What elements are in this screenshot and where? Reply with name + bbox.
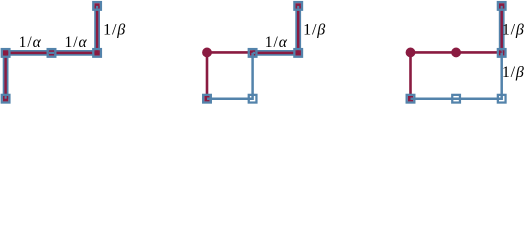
node TP2 inner maroon mark xyxy=(295,3,301,8)
maroon core segment TR-TP (gapped) xyxy=(500,9,502,51)
maroon line disc1-BL xyxy=(409,52,412,98)
node TR2 frame xyxy=(249,49,257,57)
node B1 frame xyxy=(2,49,10,57)
svg-text:1/β: 1/β xyxy=(502,21,525,38)
node BL3 white fill xyxy=(406,94,416,104)
node C1 inner maroon mark xyxy=(49,50,55,56)
node BM3 frame xyxy=(452,95,460,103)
node TP2 frame xyxy=(294,2,302,10)
node TP3 white fill xyxy=(497,1,507,11)
maroon line disc1-disc2-TR xyxy=(411,51,502,54)
wire thin blue BL-BR-TR xyxy=(207,53,253,99)
node E1 frame xyxy=(93,2,101,10)
node B1 white fill xyxy=(1,48,11,58)
svg-text:1/α: 1/α xyxy=(64,34,87,51)
node BR3 white fill xyxy=(497,94,507,104)
wire wide blue TR-CO-TP xyxy=(253,6,299,53)
maroon core segment TR-CO-TP (continuous at corner) xyxy=(255,9,298,53)
node TR3 frame xyxy=(498,49,506,57)
wire thin blue BL-BR-TR xyxy=(411,53,502,99)
node TR2 white fill xyxy=(248,48,258,58)
node BL3 inner maroon mark xyxy=(408,96,414,102)
node BR2 white fill xyxy=(248,94,258,104)
node TP2 white fill xyxy=(293,1,303,11)
node CO2 frame xyxy=(294,49,302,57)
node A1 inner maroon mark xyxy=(3,96,9,102)
slot notches diagram 2 xyxy=(253,52,258,54)
maroon line disc-BL xyxy=(206,52,209,98)
node TR3 inner maroon mark xyxy=(499,50,505,56)
node CO2 inner maroon mark xyxy=(295,50,301,56)
maroon line disc-TR xyxy=(207,51,253,54)
disc mark xyxy=(202,48,212,58)
node B1 inner maroon mark xyxy=(3,50,9,56)
node BR2 frame xyxy=(249,95,257,103)
svg-text:1/α: 1/α xyxy=(19,34,42,51)
node BL2 white fill xyxy=(202,94,212,104)
slot notches diagram 1 xyxy=(5,94,7,99)
node BR3 frame xyxy=(498,95,506,103)
node BL2 frame xyxy=(203,95,211,103)
maroon core segments (gapped at mark nodes, continuous at corners) xyxy=(6,53,49,96)
svg-text:1/β: 1/β xyxy=(303,21,326,38)
node E1 white fill xyxy=(92,1,102,11)
node D1 inner maroon mark xyxy=(94,50,100,56)
svg-text:1/β: 1/β xyxy=(103,21,126,38)
node TR3 white fill xyxy=(497,48,507,58)
node BM3 white fill xyxy=(451,94,461,104)
node TP3 inner maroon mark xyxy=(499,3,505,8)
node A1 white fill xyxy=(1,94,11,104)
node TR2 inner maroon mark xyxy=(250,50,256,56)
node BL2 inner maroon mark xyxy=(204,96,210,102)
disc mark 2 xyxy=(451,48,461,58)
node C1 frame xyxy=(48,49,56,57)
node D1 white fill xyxy=(92,48,102,58)
node TP3 frame xyxy=(498,2,506,10)
svg-text:1/β: 1/β xyxy=(502,64,525,81)
node D1 frame xyxy=(93,49,101,57)
node E1 inner maroon mark xyxy=(94,3,100,8)
wire wide blue TR-TP xyxy=(499,6,505,53)
node BL3 frame xyxy=(407,95,415,103)
node CO2 white fill xyxy=(293,48,303,58)
disc mark 1 xyxy=(406,48,416,58)
wire wide blue A-B-D-E xyxy=(6,6,98,99)
slot notches diagram 3 xyxy=(501,48,503,53)
node C1 white fill xyxy=(47,48,57,58)
svg-text:1/α: 1/α xyxy=(265,34,288,51)
node A1 frame xyxy=(2,95,10,103)
